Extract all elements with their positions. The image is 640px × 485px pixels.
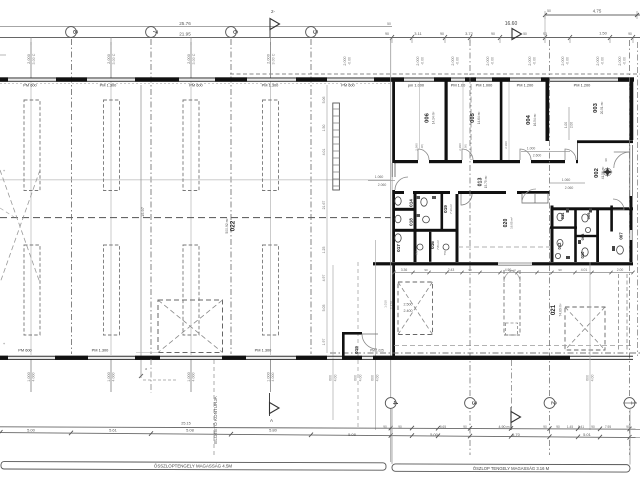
svg-text:PM 1.200: PM 1.200 [517,83,534,88]
svg-text:90: 90 [626,425,630,429]
svg-text:014: 014 [409,199,414,207]
svg-text:021: 021 [550,304,557,315]
svg-text:21.67: 21.67 [322,201,326,210]
svg-text:019: 019 [443,205,448,213]
svg-text:1.000: 1.000 [187,372,191,382]
svg-text:4.00: 4.00 [359,375,363,382]
svg-text:2.000: 2.000 [106,53,111,64]
svg-text:-0.00: -0.00 [347,57,351,65]
svg-text:2.990: 2.990 [458,143,462,151]
svg-text:90: 90 [491,32,495,36]
svg-text:5.08: 5.08 [348,432,357,437]
svg-text:90: 90 [424,268,428,272]
svg-text:3.11: 3.11 [414,31,422,36]
svg-text:4.000: 4.000 [32,373,36,382]
svg-text:7.16 m²: 7.16 m² [449,204,453,214]
svg-text:2.400: 2.400 [404,309,413,313]
svg-text:16.05 m²: 16.05 m² [510,217,514,229]
svg-text:14.64 m²: 14.64 m² [477,112,481,125]
svg-text:pm 1.000: pm 1.000 [408,83,425,88]
svg-text:5.08: 5.08 [186,428,195,433]
svg-text:2.600: 2.600 [533,154,542,158]
svg-text:90: 90 [463,425,467,429]
svg-text:7: 7 [151,30,158,34]
svg-text:6: 6 [231,30,238,34]
svg-text:ÖSZLOP TENGELY MAGASSÁG 3.16 M: ÖSZLOP TENGELY MAGASSÁG 3.16 M [473,466,550,471]
svg-text:013: 013 [478,178,484,187]
svg-text:5.05: 5.05 [322,305,326,312]
svg-text:005: 005 [470,112,476,122]
svg-text:3: 3 [470,401,477,405]
svg-text:018: 018 [409,218,414,226]
svg-text:2.500: 2.500 [404,303,413,307]
svg-text:1.50: 1.50 [599,31,608,36]
svg-text:3.36: 3.36 [401,268,408,272]
svg-text:-0.00: -0.00 [532,57,536,65]
svg-text:4.75: 4.75 [593,9,602,14]
svg-text:2.000: 2.000 [528,56,532,65]
svg-text:3.00 C: 3.00 C [32,53,36,64]
svg-text:1.000: 1.000 [27,372,31,382]
svg-text:2.00: 2.00 [570,122,574,128]
svg-text:4.00: 4.00 [376,375,380,382]
svg-text:8.41: 8.41 [578,425,584,429]
svg-text:ÖSSZLOPTENGELY MAGASSÁG 4.5M: ÖSSZLOPTENGELY MAGASSÁG 4.5M [154,464,233,469]
svg-text:50: 50 [523,32,527,36]
svg-text:600: 600 [586,375,590,381]
svg-text:21.95: 21.95 [179,32,191,37]
svg-text:4.00: 4.00 [334,375,338,382]
svg-text:2.990: 2.990 [415,143,419,151]
svg-text:003: 003 [593,102,599,112]
svg-text:25.76: 25.76 [179,21,191,26]
svg-text:PM 1.025: PM 1.025 [370,348,384,352]
svg-text:007: 007 [619,232,624,240]
svg-text:1.060: 1.060 [562,178,571,182]
svg-text:90: 90 [591,425,595,429]
svg-text:74.80 m²: 74.80 m² [559,303,563,317]
svg-text:008: 008 [580,233,585,240]
svg-text:1.00: 1.00 [564,122,568,128]
svg-text:5.06: 5.06 [322,97,326,104]
svg-text:50: 50 [547,9,551,13]
svg-text:1.45: 1.45 [567,425,573,429]
svg-text:2.000: 2.000 [596,56,600,65]
svg-text:2.43: 2.43 [448,268,455,272]
svg-text:006: 006 [425,112,431,122]
svg-text:2.170: 2.170 [390,301,394,309]
svg-text:2.000: 2.000 [26,53,31,64]
svg-text:010: 010 [580,251,585,259]
svg-text:PM 600: PM 600 [18,348,32,353]
svg-text:7.81 m²: 7.81 m² [436,240,440,250]
svg-text:50: 50 [387,22,391,26]
svg-text:011: 011 [560,212,565,219]
svg-text:3.00 C: 3.00 C [112,53,116,64]
svg-text:4.97: 4.97 [322,275,326,282]
svg-text:5.80: 5.80 [269,428,278,433]
svg-text:1.060: 1.060 [375,175,384,179]
svg-text:PM 1.300: PM 1.300 [92,348,109,353]
svg-text:-0.00: -0.00 [565,57,569,65]
svg-text:PM 1.300: PM 1.300 [255,348,272,353]
svg-text:5.00: 5.00 [27,428,36,433]
svg-text:4.00: 4.00 [591,375,595,382]
svg-text:PM 1.000: PM 1.000 [476,83,493,88]
svg-text:600: 600 [354,375,358,381]
svg-text:2.000: 2.000 [618,56,622,65]
svg-text:(.98): (.98) [420,144,424,150]
svg-text:1.97: 1.97 [322,339,326,346]
svg-text:-0.00: -0.00 [490,57,494,65]
svg-text:4.01: 4.01 [581,268,588,272]
svg-text:-0.00: -0.00 [600,57,604,65]
svg-text:2.990: 2.990 [504,141,508,149]
svg-text:90: 90 [385,32,389,36]
svg-text:-0.00: -0.00 [455,57,459,65]
svg-text:750: 750 [443,250,447,255]
svg-text:022: 022 [230,220,237,231]
svg-text:016: 016 [430,241,435,249]
svg-text:15.97: 15.97 [140,206,145,217]
svg-text:600: 600 [329,375,333,381]
svg-text:1.25: 1.25 [322,247,326,254]
svg-text:ELŐTETŐ KONTÚRJA: ELŐTETŐ KONTÚRJA [212,395,218,443]
svg-text:(.98): (.98) [464,144,468,150]
svg-text:4: 4 [391,401,398,405]
svg-text:750: 750 [415,250,419,255]
svg-text:1.000: 1.000 [107,372,111,382]
svg-text:020: 020 [503,219,509,228]
svg-text:90: 90 [383,425,387,429]
svg-text:90: 90 [604,158,608,162]
svg-text:8: 8 [71,30,78,34]
svg-text:5.65: 5.65 [440,425,446,429]
svg-text:4.000: 4.000 [112,373,116,382]
svg-text:2: 2 [550,401,557,405]
svg-text:019: 019 [354,346,359,354]
svg-text:14.14 m²: 14.14 m² [432,112,436,125]
svg-text:004: 004 [526,114,532,124]
svg-text:4.01: 4.01 [322,149,326,156]
svg-text:2.000: 2.000 [343,56,347,65]
svg-text:1.010: 1.010 [384,300,388,308]
svg-text:25.15: 25.15 [181,422,191,426]
svg-text:7.95: 7.95 [605,425,611,429]
svg-text:15.75 m²: 15.75 m² [484,176,488,189]
svg-text:2.000: 2.000 [265,53,270,64]
svg-text:012: 012 [557,242,562,250]
svg-text:500.92 m²: 500.92 m² [225,218,229,234]
svg-text:a: a [145,367,147,371]
svg-text:2.000: 2.000 [416,56,420,65]
svg-text:-0.00: -0.00 [622,57,626,65]
svg-text:1.50: 1.50 [322,125,326,132]
svg-text:1.000: 1.000 [266,372,270,382]
svg-text:16.54 m²: 16.54 m² [533,114,537,127]
svg-text:3.72: 3.72 [465,31,474,36]
svg-text:5.70: 5.70 [512,432,521,437]
svg-text:4.000: 4.000 [271,373,275,382]
svg-text:2.000: 2.000 [186,53,191,64]
svg-text:009: 009 [586,212,591,219]
svg-text:3.00 C: 3.00 C [271,53,275,64]
svg-text:90: 90 [628,32,632,36]
svg-text:90: 90 [398,425,402,429]
svg-text:-0.00: -0.00 [420,57,424,65]
svg-text:90: 90 [440,32,444,36]
svg-text:2.000: 2.000 [486,56,490,65]
svg-text:A: A [270,418,273,423]
svg-text:017: 017 [396,244,401,252]
svg-text:5.01: 5.01 [583,432,592,437]
svg-text:600: 600 [371,375,375,381]
svg-text:5.00: 5.00 [430,432,439,437]
svg-text:2.060: 2.060 [565,186,574,190]
svg-text:41.56 m²: 41.56 m² [601,167,605,180]
svg-text:1.000: 1.000 [527,147,536,151]
svg-text:90: 90 [543,425,547,429]
svg-text:2.00: 2.00 [617,268,624,272]
svg-text:16.60: 16.60 [505,21,518,27]
svg-text:3.00 C: 3.00 C [192,53,196,64]
svg-text:2-: 2- [271,9,276,14]
svg-text:90: 90 [556,425,560,429]
svg-text:4.000: 4.000 [192,373,196,382]
svg-text:90: 90 [558,268,562,272]
svg-text:5.61: 5.61 [109,428,118,433]
svg-text:PM 1.200: PM 1.200 [574,83,591,88]
svg-text:2.060: 2.060 [378,183,387,187]
svg-text:2.000: 2.000 [451,56,455,65]
svg-text:5: 5 [311,30,318,34]
svg-text:20.51 m²: 20.51 m² [600,102,604,115]
svg-text:002: 002 [594,168,600,178]
svg-text:PM 1.00: PM 1.00 [451,83,466,88]
svg-text:2.000: 2.000 [561,56,565,65]
